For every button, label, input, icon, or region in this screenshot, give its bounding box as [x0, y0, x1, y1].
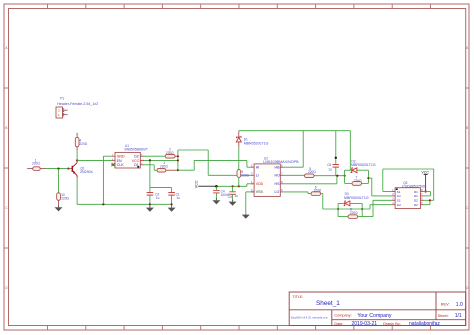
U1 pin name CLK: [117, 163, 125, 167]
Q3 pin name D1 a: [414, 190, 418, 194]
C2 value label 1u: [156, 196, 160, 200]
R2 designator label: [169, 148, 171, 152]
Q3 designator label: [403, 181, 407, 185]
wire U1 D1 to R3: [144, 165, 157, 170]
ground symbol below U2 VSS: [242, 214, 250, 219]
R8 designator label: [350, 207, 352, 211]
wire U1 D2 to R2: [144, 155, 165, 157]
R3 value label 220R: [160, 164, 168, 168]
svg-text:HS: HS: [275, 182, 281, 186]
Q3 part number label: [402, 184, 426, 188]
title block date value: [352, 321, 378, 327]
title block outline: [289, 292, 466, 326]
junction node collector: [76, 159, 78, 161]
R1 value label 220R: [32, 162, 40, 166]
wire VCC flag stub (dark): [198, 185, 216, 187]
svg-text:nataliabonifaz: nataliabonifaz: [409, 321, 440, 327]
U1 part number label: [124, 147, 148, 151]
Q3 pin name D2 b: [414, 203, 418, 207]
R7 value label 220R: [354, 179, 362, 183]
wire U1 VCC to node column: [144, 159, 178, 161]
wire Q1 emitter down: [76, 177, 78, 204]
junction node VCC wire right: [177, 159, 179, 161]
ground symbol below C5: [229, 199, 237, 205]
D1 designator label: [244, 138, 248, 142]
ground symbol below C2: [146, 204, 154, 212]
wire U2 VSS to ground: [246, 192, 251, 214]
junction node HS/C6: [336, 175, 338, 177]
junction node C5 top: [232, 185, 234, 187]
svg-text:220Ω: 220Ω: [350, 211, 358, 215]
Q1 value label 2N2904: [80, 170, 93, 174]
R3 designator label: [163, 161, 165, 165]
svg-text:S1: S1: [397, 190, 401, 194]
ground symbol below R10: [55, 205, 63, 211]
resistor R7 220 ohm (horizontal, parallel with D2): [345, 182, 369, 186]
wire bottom ground rail: [77, 203, 172, 205]
resistor R5 220 ohm (horizontal): [305, 174, 315, 178]
op-amp U1 SN6505BDBVT transformer driver: [111, 152, 144, 168]
R4 value label 220R: [79, 142, 87, 146]
svg-text:Your Company: Your Company: [357, 313, 392, 319]
R7 designator label: [356, 175, 358, 179]
wire hook D2 pins: [424, 200, 430, 204]
wire big loop S1 to right column: [383, 169, 434, 200]
svg-text:Sheet_1: Sheet_1: [316, 300, 340, 307]
wire R5 to HS node: [314, 175, 345, 177]
transistor Q1 2N2904 (PNP): [68, 160, 77, 177]
svg-text:220Ω: 220Ω: [354, 179, 362, 183]
svg-text:D1: D1: [414, 194, 418, 198]
wire C6 column upper: [335, 131, 337, 165]
svg-text:220Ω: 220Ω: [32, 162, 40, 166]
C6 designator label: [327, 163, 331, 167]
svg-text:D1: D1: [414, 190, 418, 194]
svg-text:VCC: VCC: [421, 170, 429, 174]
wire VCC rail to U2 VDD: [216, 184, 250, 187]
resistor R2 220 ohm (horizontal): [165, 154, 178, 158]
capacitor C2 1u: [147, 193, 154, 205]
svg-text:2019-03-21: 2019-03-21: [352, 321, 378, 327]
wire top rail HB net: [239, 131, 350, 171]
U1 pin name VCC: [132, 159, 140, 163]
svg-text:MBR0520LT1G: MBR0520LT1G: [344, 196, 369, 200]
svg-text:VDD: VDD: [256, 182, 264, 186]
junction node D2 pins/right column: [429, 199, 431, 201]
junction node D2 loop right: [367, 177, 369, 179]
svg-text:REV:: REV:: [441, 303, 450, 307]
resistor R9 220 ohm (vertical): [237, 170, 241, 187]
Q3 pin name D2 a: [414, 199, 418, 203]
resistor R8 220 ohm (horizontal, parallel with D3): [338, 215, 373, 219]
svg-text:2N2904: 2N2904: [80, 170, 93, 174]
title block Drawn By label: [383, 322, 401, 326]
junction node rail/D3 left: [337, 208, 339, 210]
svg-text:G2: G2: [397, 203, 401, 207]
junction node C6 column: [335, 157, 337, 159]
U2 part number label: [263, 160, 299, 164]
svg-text:1u: 1u: [176, 196, 180, 200]
svg-text:1u: 1u: [234, 194, 238, 198]
Q3 pin name G1: [397, 194, 401, 198]
D2 value label MBR0520LT1G: [351, 163, 376, 167]
Q3 pin numbers: [392, 189, 423, 205]
U2 pin name VDD: [256, 182, 264, 186]
P1 designator label: [60, 97, 64, 101]
C2 designator label: [155, 192, 159, 196]
C4 value label 100nF: [221, 193, 230, 197]
D3 value label MBR0520LT1G: [344, 196, 369, 200]
title block sheet value 1/1: [455, 313, 462, 319]
P1 value label: [57, 102, 98, 106]
capacitor C4 100nF: [213, 186, 220, 198]
IC U2 LM5109BMAX NOPB gate driver: [251, 164, 284, 197]
diode D1 MBR0520LT1G (vertical): [236, 131, 241, 147]
junction node R3 right: [177, 169, 179, 171]
junction node HS/D2 loop: [344, 175, 346, 177]
wire U2 HS right and up: [284, 176, 337, 184]
junction node rail/D3 right: [361, 208, 363, 210]
transistor Q3 CSD88537ND dual MOSFET: [392, 188, 424, 209]
junction node R9 bottom: [238, 185, 240, 187]
D1 value label MBR0520LT1G: [244, 142, 269, 146]
svg-text:EN: EN: [117, 159, 122, 163]
svg-text:220Ω: 220Ω: [160, 164, 168, 168]
C4 designator label: [221, 190, 225, 194]
junction node VCC/C2 drop: [149, 159, 151, 161]
wire U2 HB up to top rail: [284, 131, 303, 168]
svg-text:Sheet:: Sheet:: [438, 314, 449, 318]
title block company value: [357, 313, 392, 319]
wire D2 loop to Q3 G1: [368, 178, 391, 196]
Q3 pin name S2: [397, 199, 401, 203]
U2 pin name VSS: [256, 190, 264, 194]
junction node base/R10: [57, 168, 59, 170]
wire U1 GND pin drop: [103, 156, 111, 204]
U2 pin name HS: [275, 182, 281, 186]
svg-text:C5: C5: [228, 195, 232, 199]
connector P1 Header-Female-2.54_1x2: [56, 107, 68, 118]
svg-text:HB: HB: [275, 166, 281, 170]
wire node column R2/VCC/R3: [177, 150, 179, 170]
R4 designator label: [79, 138, 81, 142]
U1 designator label: [125, 144, 129, 148]
svg-text:S2: S2: [397, 199, 401, 203]
svg-text:1.0: 1.0: [456, 302, 463, 308]
C1 value label 1u: [176, 196, 180, 200]
svg-text:Company:: Company:: [334, 313, 351, 317]
C5 designator label: [228, 195, 232, 199]
R5 value label 220R: [308, 170, 316, 174]
svg-text:HI: HI: [256, 166, 260, 170]
svg-text:TITLE:: TITLE:: [293, 295, 304, 299]
svg-text:EasyEDA v6.4.25, easyeda.com: EasyEDA v6.4.25, easyeda.com: [291, 315, 328, 319]
title block Sheet label: [438, 314, 449, 318]
svg-text:220Ω: 220Ω: [308, 170, 316, 174]
wire R3 node to U2 HI: [178, 160, 251, 170]
Q3 pin name S1: [397, 190, 401, 194]
capacitor C1 1u: [168, 193, 175, 205]
frame zone letters: [5, 46, 469, 290]
D3 designator label: [345, 192, 349, 196]
U1 pin name D1: [134, 163, 139, 167]
svg-text:220Ω: 220Ω: [241, 173, 249, 177]
R8 value label 220R: [350, 211, 358, 215]
U1 pin name D2: [134, 155, 139, 159]
svg-text:220Ω: 220Ω: [166, 151, 174, 155]
resistor R3 220 ohm (horizontal): [157, 168, 178, 172]
svg-text:VSS: VSS: [256, 190, 264, 194]
wire collector to U1 EN: [77, 159, 111, 161]
ground symbol below C4: [212, 198, 220, 204]
svg-text:G1: G1: [397, 194, 401, 198]
P1 pin number 1: [58, 113, 60, 117]
svg-text:MBR0520LT1G: MBR0520LT1G: [351, 163, 376, 167]
U1 pin numbers: [112, 155, 143, 166]
svg-text:1u: 1u: [328, 168, 332, 172]
U2 designator label: [264, 157, 268, 161]
ground symbol below C1: [168, 204, 176, 212]
svg-text:CLK: CLK: [117, 163, 125, 167]
svg-text:LI: LI: [256, 174, 259, 178]
svg-text:VCC: VCC: [132, 159, 140, 163]
resistor R6 220 ohm (horizontal): [311, 192, 321, 196]
svg-text:LO: LO: [275, 190, 280, 194]
wire R1 to Q1 base: [45, 168, 68, 170]
svg-text:P1: P1: [60, 97, 64, 101]
wire U2 HO through R5: [284, 174, 305, 176]
C5 value label 1u: [234, 194, 238, 198]
wire Q3 G2 to gate rail: [370, 205, 392, 209]
capacitor C5 1u: [229, 186, 236, 199]
R2 value label 220R: [166, 151, 174, 155]
svg-text:1u: 1u: [156, 196, 160, 200]
C1 designator label: [176, 192, 180, 196]
svg-text:C6: C6: [327, 163, 331, 167]
junction node R2 right: [177, 155, 179, 157]
wire R4 to collector junction: [76, 151, 78, 161]
junction node rail/C2: [149, 203, 151, 205]
C6 value label 1u: [328, 168, 332, 172]
R9 value label 220R: [241, 173, 249, 177]
frame tick marks left/right: [4, 88, 469, 248]
junction node rail/U1-GND drop: [102, 203, 104, 205]
U2 pin name LO: [275, 190, 280, 194]
wire hook D1 pins: [424, 192, 431, 196]
junction node C4 top: [215, 185, 218, 188]
junction node base pin: [67, 168, 69, 170]
P1 pin number 2: [58, 108, 60, 112]
title block sheet name Sheet_1: [316, 300, 340, 307]
wire D1 to R9: [238, 147, 240, 170]
title block watermark: [291, 315, 328, 319]
svg-text:Header-Female-2.54_1x2: Header-Female-2.54_1x2: [57, 102, 98, 106]
R10 value label 220R: [61, 197, 69, 201]
resistor R4 220 ohm (vertical, above Q1 collector, open top): [75, 133, 79, 151]
svg-text:D2: D2: [414, 199, 418, 203]
svg-text:1/1: 1/1: [455, 313, 462, 319]
U2 pin name HO: [275, 174, 281, 178]
wire junction down to R10: [58, 169, 60, 193]
svg-text:220Ω: 220Ω: [61, 197, 69, 201]
svg-text:CSD88537ND: CSD88537ND: [402, 184, 426, 188]
wire top jog to x208: [178, 150, 251, 175]
power flag VCC (rotated, near C4): [194, 180, 198, 188]
title block drawn by value: [409, 321, 440, 327]
svg-text:VCC: VCC: [194, 180, 198, 188]
R10 designator label: [61, 193, 65, 197]
U1 pin name GND: [117, 155, 125, 159]
Q1 designator label: [80, 166, 84, 170]
U1 pin name EN: [117, 159, 122, 163]
D2 designator label: [351, 160, 355, 164]
svg-text:MBR0520LT1G: MBR0520LT1G: [244, 142, 269, 146]
capacitor C6 1u: [333, 165, 340, 176]
svg-text:Date:: Date:: [334, 322, 343, 326]
junction node rail/C1: [171, 203, 173, 205]
svg-text:D2: D2: [414, 203, 418, 207]
title block Company label: [334, 313, 351, 317]
title block rev value 1.0: [456, 302, 463, 308]
Q3 pin name G2: [397, 203, 401, 207]
svg-text:SN6505BDBVT: SN6505BDBVT: [124, 147, 148, 151]
U2 pin name HI: [256, 166, 260, 170]
wire Q3 S2 to D3 loop bottom: [373, 200, 392, 216]
Q3 pin name D1 b: [414, 194, 418, 198]
title block REV label: [441, 303, 450, 307]
wire R6 down to gate rail: [321, 194, 370, 209]
svg-text:HO: HO: [275, 174, 281, 178]
title block TITLE label: [293, 295, 304, 299]
diode D3 MBR0520LT1G with loop: [338, 201, 362, 217]
R6 value label 220R: [314, 188, 322, 192]
frame tick marks top/bottom: [48, 4, 431, 330]
resistor R1 220 ohm (horizontal, left input): [27, 167, 45, 171]
power flag VCC above Q3: [421, 170, 429, 191]
svg-text:Drawn By:: Drawn By:: [383, 322, 401, 326]
junction node VCC/D1 pins: [425, 190, 427, 192]
svg-text:220Ω: 220Ω: [314, 188, 322, 192]
wire U1 VCC node down to capacitors: [150, 160, 172, 192]
R6 designator label: [315, 185, 317, 189]
U2 pin numbers: [251, 164, 283, 193]
R9 designator label: [241, 170, 243, 174]
R5 designator label: [309, 167, 311, 171]
U1 no-connect cross on CLK: [112, 163, 115, 166]
U2 pin name HB: [275, 166, 281, 170]
svg-text:D1: D1: [134, 163, 139, 167]
diode D2 MBR0520LT1G with loop: [345, 168, 369, 184]
resistor R10 220 ohm (vertical, base to ground): [57, 193, 61, 206]
title block Date label: [334, 322, 343, 326]
wire U2 LO through R6: [284, 192, 311, 194]
U2 pin name LI: [256, 174, 259, 178]
R1 designator label: [35, 158, 37, 162]
svg-text:220Ω: 220Ω: [79, 142, 87, 146]
